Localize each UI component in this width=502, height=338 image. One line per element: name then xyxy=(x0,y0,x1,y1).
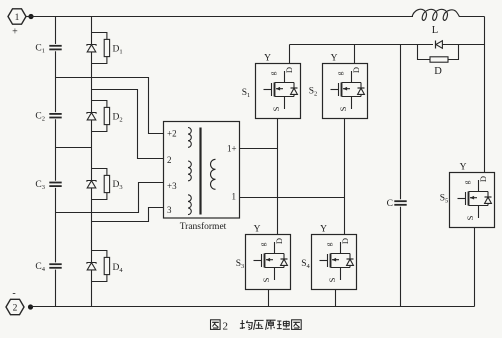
wire S1 top xyxy=(289,45,291,65)
svg-text:Y: Y xyxy=(320,225,327,235)
caption 原 (hand-drawn glyph) xyxy=(266,320,276,330)
caption 均 (hand-drawn glyph) xyxy=(240,320,253,330)
svg-text:C4: C4 xyxy=(35,262,45,273)
terminal 1 (hexagon) xyxy=(8,9,26,24)
junction wire C3/C4 to pin +3 xyxy=(56,183,164,213)
caption 图2 (hand-drawn glyph) xyxy=(211,320,221,330)
capacitor C3 xyxy=(49,183,61,187)
svg-text:+2: +2 xyxy=(167,129,177,139)
svg-text:D: D xyxy=(434,66,442,77)
wire S4 bottom xyxy=(335,290,337,307)
secondary winding xyxy=(211,159,216,189)
wire S1 bottom to S3 top xyxy=(277,119,279,235)
wire S2 bottom to S4 top xyxy=(344,119,346,235)
primary winding b xyxy=(188,161,191,181)
transformer core xyxy=(199,128,201,215)
junction wire D1/D2 to pin 2 xyxy=(92,90,164,159)
switch S2 module xyxy=(323,64,368,119)
freewheel diode (cathode bar) xyxy=(435,41,437,49)
diode-resistor combo D3 xyxy=(87,169,110,200)
caption 理 (hand-drawn glyph) xyxy=(277,321,290,330)
top rail wire xyxy=(31,16,413,18)
top rail wire after inductor xyxy=(460,16,485,18)
inductor L xyxy=(412,9,460,20)
svg-text:2: 2 xyxy=(223,321,229,333)
snubber resistor body xyxy=(430,57,448,62)
switch S4 module xyxy=(312,235,357,290)
node dot at terminal 2 xyxy=(28,304,33,309)
svg-text:2: 2 xyxy=(13,304,18,314)
capacitor C4 xyxy=(49,264,61,268)
right rail wire down to S5 xyxy=(484,17,486,173)
drain bus wire y=44 xyxy=(290,44,485,46)
wire 1+ to S1/S3 node xyxy=(240,148,278,150)
switch S5 module xyxy=(450,173,495,228)
svg-text:L: L xyxy=(432,25,438,36)
svg-text:S2: S2 xyxy=(309,87,318,98)
diode-resistor combo D4 xyxy=(87,251,110,282)
capacitor C (output) xyxy=(394,201,406,205)
svg-text:D4: D4 xyxy=(113,263,124,274)
primary winding a xyxy=(188,128,191,148)
svg-text:S3: S3 xyxy=(236,259,245,270)
svg-text:Y: Y xyxy=(254,225,261,235)
svg-text:S5: S5 xyxy=(440,194,449,205)
svg-text:Y: Y xyxy=(460,163,467,173)
wire S5 bottom xyxy=(474,228,476,307)
svg-text:+: + xyxy=(12,27,18,38)
switch S3 module xyxy=(246,235,291,290)
capacitor C2 xyxy=(49,114,61,118)
svg-text:-: - xyxy=(12,288,15,299)
snubber resistor D loop xyxy=(418,45,459,60)
diode-resistor combo D1 xyxy=(87,33,110,64)
wire S3 bottom xyxy=(268,290,270,307)
terminal 2 (hexagon) xyxy=(6,299,24,314)
svg-text:S1: S1 xyxy=(242,88,251,99)
svg-text:C3: C3 xyxy=(35,180,45,191)
caption 压 (hand-drawn glyph) xyxy=(254,320,264,329)
diode-resistor combo D2 xyxy=(87,101,110,132)
junction wire C1/C2 to pin +2 xyxy=(56,78,164,134)
bottom rail wire xyxy=(31,306,475,308)
wire S2 top xyxy=(354,45,356,65)
svg-text:C: C xyxy=(387,199,393,209)
svg-text:D2: D2 xyxy=(113,113,123,124)
diode rail x=91.5 xyxy=(91,17,93,307)
node dot at terminal 1 xyxy=(28,14,33,19)
svg-text:Transformet: Transformet xyxy=(180,221,227,232)
svg-text:S4: S4 xyxy=(301,259,310,270)
primary winding c xyxy=(188,195,191,215)
capacitor branch wire xyxy=(400,45,402,307)
wire pin 1 to S2/S4 node xyxy=(240,197,345,199)
svg-text:D3: D3 xyxy=(113,180,123,191)
switch S1 module xyxy=(256,64,301,119)
svg-text:Y: Y xyxy=(331,54,338,64)
caption 图 (hand-drawn glyph) xyxy=(292,320,302,330)
svg-text:Y: Y xyxy=(264,54,271,64)
svg-text:1: 1 xyxy=(232,192,237,202)
svg-text:D1: D1 xyxy=(113,45,123,56)
capacitor C1 xyxy=(49,46,61,50)
junction wire C2/C3 xyxy=(56,147,92,149)
svg-text:1: 1 xyxy=(15,13,20,23)
freewheel diode triangle xyxy=(436,41,443,49)
svg-text:C2: C2 xyxy=(35,112,45,123)
svg-text:+3: +3 xyxy=(167,181,177,191)
svg-text:3: 3 xyxy=(167,205,172,215)
svg-text:1+: 1+ xyxy=(227,144,237,154)
svg-text:C1: C1 xyxy=(35,44,45,55)
junction wire D3/D4 to pin 3 xyxy=(92,208,164,222)
left capacitor rail x=56 xyxy=(55,17,57,307)
svg-text:2: 2 xyxy=(167,155,172,165)
wire terminal1 to dot xyxy=(26,16,31,18)
transformer U1 box xyxy=(164,122,240,219)
